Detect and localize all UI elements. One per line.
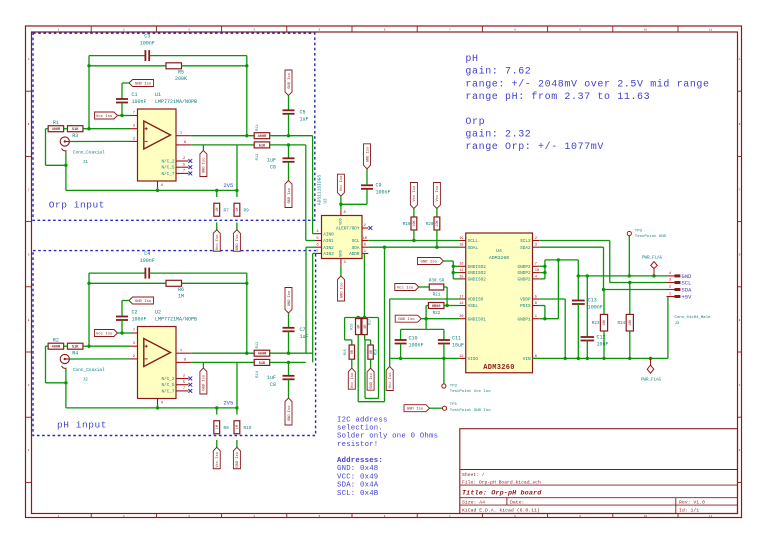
svg-text:GND Iso: GND Iso: [288, 406, 292, 422]
coaxial connector J2: [60, 354, 69, 368]
wire R23 top lead: [603, 290, 605, 315]
svg-text:SDA: SDA: [352, 246, 360, 251]
no-connect X N/C_5 (U1): [188, 165, 192, 169]
svg-text:SDA: SDA: [682, 288, 693, 294]
svg-text:1M: 1M: [216, 208, 220, 212]
no-connect X N/C_2 (U1): [188, 159, 192, 163]
svg-text:VSEL: VSEL: [468, 304, 479, 309]
wire R7 top lead: [216, 190, 218, 197]
wire VDDISO row: [390, 298, 459, 300]
svg-text:Addresses:: Addresses:: [337, 457, 383, 465]
svg-text:R16: R16: [351, 324, 355, 330]
svg-text:2: 2: [183, 375, 185, 379]
wire R24 bottom lead: [629, 331, 631, 358]
svg-text:GND Iso: GND Iso: [236, 452, 240, 468]
svg-text:R7: R7: [224, 209, 230, 214]
svg-text:gain: 7.62: gain: 7.62: [465, 66, 531, 78]
wire GND Iso to C2 horiz (U2): [122, 300, 129, 302]
svg-text:range pH: from 2.37 to 11.63: range pH: from 2.37 to 11.63: [465, 91, 650, 103]
svg-text:AIN2: AIN2: [323, 246, 334, 251]
wire R23 bottom lead: [603, 331, 605, 358]
wire TP2 stem: [443, 358, 445, 383]
wire SCL bus row: [368, 240, 459, 242]
pin N/C_7 stub U2: [176, 390, 189, 392]
svg-text:Vcc Iso: Vcc Iso: [351, 373, 355, 389]
title block divider rev: [675, 498, 677, 514]
junction SDA R20: [435, 246, 438, 249]
resistor R13 (guard series): [254, 142, 270, 148]
svg-text:ADM3260: ADM3260: [489, 255, 509, 261]
junction Vcc/C1: [120, 114, 123, 117]
wire C5 bottom lead: [288, 114, 290, 136]
svg-text:N/C_2: N/C_2: [161, 160, 174, 165]
wire feedback row1 right (U2): [149, 272, 247, 274]
wire feedback row1 right (U1): [149, 55, 247, 57]
svg-text:C1: C1: [132, 92, 138, 98]
svg-text:U2: U2: [155, 310, 161, 316]
wire address outer U bottom: [358, 401, 384, 403]
capacitor C7: [283, 328, 295, 332]
capacitor C11: [438, 340, 450, 344]
wire SCL2 down: [609, 241, 611, 283]
pin ALERT/RDY U3: [362, 227, 368, 229]
global label GND Iso below guard pin (U2): [200, 368, 207, 394]
wire R15 top lead: [351, 340, 353, 345]
svg-text:GND Iso: GND Iso: [370, 373, 374, 389]
svg-text:PWR_FLAG: PWR_FLAG: [642, 256, 663, 260]
pin +IN U1: [130, 128, 138, 130]
pin AIN1 U3: [315, 240, 322, 242]
svg-text:Date:: Date:: [510, 500, 524, 506]
pin GNDISO2(15) U4: [459, 278, 466, 280]
wire R7 bottom lead: [216, 223, 218, 230]
pin PDIS(8) U4: [533, 305, 540, 307]
global label GND Iso below U3 GND: [338, 276, 345, 301]
junction rail R9: [235, 189, 238, 192]
pin VDDP(5) U4: [533, 298, 540, 300]
pin J3 GND body: [675, 274, 681, 277]
IC U3 ADS1115 body: [322, 216, 363, 259]
svg-text:11: 11: [459, 269, 464, 273]
svg-text:GNDISO2: GNDISO2: [468, 265, 487, 270]
wire feedback row2 right (U2): [182, 282, 247, 284]
wire GNDISO2 flag lead: [444, 260, 454, 262]
wire GNDP2 pin10: [539, 272, 545, 274]
junction GND PDIS branch: [557, 258, 560, 261]
global label GND Iso below R18: [367, 368, 374, 390]
svg-text:R13: R13: [256, 153, 260, 161]
capacitor C5: [283, 110, 295, 114]
wire VDD stem: [340, 196, 342, 209]
pin N/C_2 stub U2: [176, 378, 189, 380]
svg-text:3: 3: [133, 342, 135, 346]
pin -IN U2: [130, 358, 138, 360]
svg-text:C2: C2: [132, 310, 138, 316]
svg-text:Vcc Iso: Vcc Iso: [397, 287, 414, 291]
pin N/C_2 stub U1: [176, 160, 189, 162]
svg-text:18: 18: [459, 244, 463, 248]
wire PDIS down: [544, 306, 546, 319]
svg-text:J1: J1: [83, 160, 89, 165]
resistor R19: [411, 217, 417, 230]
svg-text:2: 2: [133, 355, 135, 359]
svg-text:Vcc Iso: Vcc Iso: [96, 115, 113, 119]
wire R19 bottom lead: [413, 230, 415, 241]
wire R8 top lead: [216, 408, 218, 415]
junction Vcc/C2: [120, 331, 123, 334]
svg-text:SDA2: SDA2: [520, 246, 531, 251]
svg-text:U3: U3: [325, 198, 329, 204]
svg-text:8: 8: [184, 141, 186, 145]
junction VIN PWR_FLAG: [649, 357, 652, 360]
svg-text:R4: R4: [72, 351, 78, 357]
junction row2 left (U2): [87, 282, 90, 285]
IC U4 ADM3260 body: [466, 233, 533, 373]
wire SDA row to J3: [604, 289, 667, 291]
wire GND Iso to C1 horiz (U1): [122, 82, 129, 84]
junction GNDP1 PDIS: [543, 317, 546, 320]
title block line file/title: [460, 484, 738, 486]
capacitor C13: [572, 301, 585, 305]
wire GNDP2 pin4: [539, 278, 545, 280]
svg-text:GND Iso: GND Iso: [135, 83, 152, 87]
Orp input dashed box: [33, 33, 315, 220]
wire feedback vertical right (U2): [246, 273, 248, 353]
wire jog to R18: [365, 339, 371, 341]
svg-text:7: 7: [133, 112, 135, 116]
svg-text:2: 2: [535, 237, 537, 241]
svg-text:5: 5: [535, 295, 537, 299]
svg-text:I2C address: I2C address: [337, 416, 388, 424]
wire R19 top lead: [413, 209, 415, 218]
resistor R8: [214, 421, 220, 434]
wire R22-left down: [425, 306, 427, 330]
pin SCL U3: [362, 240, 368, 242]
svg-text:Orp: Orp: [465, 117, 485, 128]
svg-text:3: 3: [669, 279, 671, 283]
svg-text:ADS1115IDGS: ADS1115IDGS: [316, 175, 322, 206]
svg-text:C7: C7: [300, 327, 306, 333]
resistor R6 (feedback): [166, 280, 182, 286]
wire TP3 stem: [628, 236, 630, 276]
wire GNDISO2 pin15: [453, 278, 459, 280]
junction rail C11/TP2: [442, 357, 445, 360]
no-connect X N/C_7 (U1): [188, 172, 192, 176]
svg-text:51K: 51K: [72, 346, 79, 350]
svg-text:LMP7721MA/NOPB: LMP7721MA/NOPB: [155, 99, 197, 105]
svg-text:1M: 1M: [216, 425, 220, 429]
no-connect X N/C_5 (U2): [188, 383, 192, 387]
capacitor C4 (feedback): [145, 268, 149, 279]
wire guard row (U1): [191, 144, 254, 146]
junction GNDISO2 11: [452, 271, 455, 274]
svg-text:GND: GND: [340, 249, 344, 256]
svg-text:Solder only one 0 Ohms: Solder only one 0 Ohms: [337, 433, 438, 441]
global label Vcc Iso at R21: [395, 284, 419, 291]
wire coax to -IN (U1): [69, 140, 130, 142]
junction rail R16: [357, 316, 360, 319]
wire rail right drop: [378, 318, 380, 399]
pin GND U3: [340, 259, 342, 265]
resistor R11 (output series): [254, 133, 270, 139]
svg-text:1uF: 1uF: [300, 117, 309, 123]
svg-text:R12: R12: [256, 341, 260, 349]
wire rail flag stem: [389, 358, 391, 366]
wire feedback row1 left (U1): [89, 55, 145, 57]
svg-text:GND Iso: GND Iso: [203, 158, 207, 174]
svg-text:AIN0: AIN0: [323, 232, 334, 237]
pin GNDISO2(11) U4: [459, 272, 466, 274]
svg-text:R23: R23: [592, 321, 600, 326]
resistor R9: [234, 203, 240, 216]
junction C7 output row: [287, 352, 290, 355]
svg-text:7: 7: [133, 329, 135, 333]
svg-text:GNDP1: GNDP1: [518, 317, 531, 322]
svg-text:2: 2: [364, 224, 366, 228]
wire coax shield vertical (U2): [65, 369, 67, 408]
pin AIN3 U3: [315, 252, 322, 254]
global label Vcc Iso at op-amp (U1): [95, 112, 118, 119]
svg-text:1M: 1M: [236, 425, 240, 429]
wire R18 top lead: [370, 340, 372, 345]
pin GNDP2(7) U4: [533, 265, 540, 267]
svg-text:R22: R22: [433, 311, 441, 316]
pin +IN U2: [130, 345, 138, 347]
junction feedback row2 (U2): [245, 282, 248, 285]
wire C6 top lead: [288, 145, 290, 158]
no-connect X N/C_2 (U2): [188, 377, 192, 381]
svg-text:GND Iso: GND Iso: [398, 318, 415, 322]
wire address inner U bottom: [365, 397, 379, 399]
pin OUT U2: [176, 352, 191, 354]
svg-text:10: 10: [363, 237, 367, 241]
global label GND Iso below C8: [285, 398, 292, 425]
svg-text:C13: C13: [588, 298, 597, 304]
svg-text:J2: J2: [83, 378, 89, 383]
svg-text:gain: 2.32: gain: 2.32: [465, 129, 531, 141]
pin J3 +5V body: [675, 295, 681, 298]
junction VIN C12: [586, 357, 589, 360]
junction V- rail (U2): [156, 406, 159, 409]
svg-text:N/C_5: N/C_5: [161, 383, 174, 388]
wire GNDISO2 pin11: [453, 272, 459, 274]
wire C13 bottom lead: [577, 304, 579, 358]
wire feedback row2 right (U1): [182, 65, 247, 67]
wire left loop horizontal (U2): [46, 382, 66, 384]
wire Orp guard to AIN1 vertical: [305, 145, 307, 241]
resistor R1 (input): [48, 126, 64, 132]
wire C6 bottom lead: [288, 162, 290, 181]
svg-text:Vcc Iso: Vcc Iso: [96, 333, 113, 337]
junction GNDISO2 16: [452, 265, 455, 268]
coaxial connector J1: [60, 137, 69, 151]
svg-text:pH input: pH input: [57, 420, 107, 431]
svg-text:11: 11: [709, 29, 713, 32]
svg-text:Vcc Iso: Vcc Iso: [216, 452, 220, 468]
svg-text:C3: C3: [144, 33, 150, 39]
wire AIN0 horizontal: [313, 233, 315, 235]
op-amp U2 plus mark: [145, 345, 148, 348]
wire SCL row to J3: [610, 282, 667, 284]
wire C9 bottom horizontal: [341, 203, 367, 205]
wire guard-row down to rail (U1): [236, 145, 238, 191]
svg-text:N/C_7: N/C_7: [161, 389, 174, 394]
svg-text:R14: R14: [256, 370, 260, 378]
wire R17 bottom jog down: [364, 335, 366, 340]
svg-text:100nF: 100nF: [376, 190, 391, 196]
svg-text:8: 8: [344, 211, 346, 215]
svg-text:SCLL: SCLL: [468, 239, 479, 244]
junction shield loop (U1): [64, 164, 67, 167]
resistor R18: [368, 345, 374, 359]
pin N/C_7 stub U1: [176, 172, 189, 174]
svg-text:7: 7: [183, 170, 185, 174]
wire 2V5 rail (U2): [66, 407, 237, 409]
pin V+ U1: [131, 115, 138, 117]
svg-text:400R: 400R: [52, 128, 61, 132]
svg-text:VCC: 0x49: VCC: 0x49: [337, 473, 378, 481]
svg-text:3: 3: [344, 261, 346, 265]
svg-text:C4: C4: [144, 251, 150, 257]
title block line size/kicad: [460, 504, 738, 506]
junction GNDP2 10: [543, 271, 546, 274]
junction GNDP2 7: [543, 265, 546, 268]
capacitor C9: [361, 185, 373, 189]
svg-text:resistor!: resistor!: [337, 441, 378, 449]
pin VISO(12) U4: [459, 357, 466, 359]
no-connect X N/C_7 (U2): [188, 389, 192, 393]
svg-text:R30.5R: R30.5R: [429, 279, 445, 284]
pin J3 GND stub: [667, 275, 675, 277]
svg-text:GND Iso: GND Iso: [407, 408, 424, 412]
wire GNDP2 pin7: [539, 265, 545, 267]
wire cap top rail: [401, 328, 444, 330]
svg-text:400R: 400R: [258, 135, 267, 139]
svg-text:Sheet: /: Sheet: /: [462, 472, 485, 478]
svg-text:10K: 10K: [436, 219, 440, 226]
testpoint TP2: [442, 384, 446, 388]
svg-text:selection.: selection.: [337, 425, 383, 433]
svg-text:2: 2: [669, 286, 671, 290]
title block line comment/sheet: [460, 469, 738, 471]
resistor R17: [362, 319, 368, 335]
wire GNDP2 vertical: [544, 260, 546, 279]
svg-text:100nF: 100nF: [132, 99, 147, 105]
PWR_FLAG (GND) symbol: [651, 262, 658, 276]
svg-text:5: 5: [183, 163, 185, 167]
pin J3 SDA stub: [667, 289, 675, 291]
svg-text:7: 7: [535, 263, 537, 267]
wire C8 bottom lead: [288, 379, 290, 398]
pin N/C_5 stub U1: [176, 166, 189, 168]
junction VIN R23: [602, 357, 605, 360]
testpoint TP3: [627, 231, 631, 235]
junction +IN row (U1): [87, 127, 90, 130]
svg-text:GNDP2: GNDP2: [518, 265, 531, 270]
wire R15 bottom lead: [351, 359, 353, 368]
global label GND Iso above C9: [364, 144, 371, 169]
svg-text:100nF: 100nF: [140, 41, 155, 47]
wire SDA2 out: [539, 246, 603, 248]
svg-text:Rev: V1.0: Rev: V1.0: [679, 500, 705, 506]
svg-text:VISO: VISO: [468, 357, 479, 362]
junction VDD C9: [339, 203, 342, 206]
svg-text:10K: 10K: [413, 219, 417, 226]
svg-text:KiCad E.D.A. kicad (6.0.11): KiCad E.D.A. kicad (6.0.11): [462, 507, 540, 513]
svg-text:10K: 10K: [603, 319, 607, 326]
wire VIN rail: [533, 357, 668, 359]
capacitor C12: [581, 337, 595, 341]
pin OUT U1: [176, 135, 191, 137]
global label GND Iso at GNDISO2: [418, 258, 444, 265]
wire AIN3 horizontal: [313, 252, 315, 254]
wire R14 right (U2): [270, 361, 306, 363]
svg-text:GND Iso: GND Iso: [135, 300, 152, 304]
wire C1 to Vcc row (U1): [121, 103, 123, 116]
svg-text:GND Iso: GND Iso: [421, 261, 438, 265]
wire Vcc Iso to R21: [419, 286, 429, 288]
wire feedback row2 left (U2): [89, 282, 166, 284]
wire GND Iso to C2 vert (U2): [121, 301, 123, 317]
junction VIN C13: [577, 357, 580, 360]
svg-text:3: 3: [535, 244, 537, 248]
svg-text:1uF: 1uF: [300, 334, 309, 340]
pin SDAL(18) U4: [459, 246, 466, 248]
wire SDA bus row: [368, 246, 459, 248]
pin guard U1: [176, 144, 191, 146]
pin AIN2 U3: [315, 246, 322, 248]
wire feedback row1 left (U2): [89, 272, 145, 274]
wire GND row to J3: [578, 275, 666, 277]
junction GND row C13: [577, 274, 580, 277]
wire TP1 lead: [430, 407, 443, 409]
wire guard row (U2): [191, 361, 254, 363]
svg-text:R20: R20: [426, 222, 434, 227]
svg-text:GND Iso: GND Iso: [288, 73, 292, 89]
capacitor C1 (input supply): [116, 99, 128, 103]
svg-text:LMP7721MA/NOPB: LMP7721MA/NOPB: [155, 317, 197, 323]
wire R12 right (U2): [270, 352, 313, 354]
wire SCL2 out: [539, 240, 610, 242]
pin V+ U2: [131, 332, 138, 334]
global label Vcc Iso above U3 VDD: [337, 174, 344, 196]
capacitor C6: [283, 158, 295, 162]
wire GNDP1 up: [557, 260, 559, 319]
resistor R4 (input): [67, 343, 83, 349]
wire C10 bottom lead: [400, 344, 402, 359]
wire C10 top lead: [400, 329, 402, 340]
svg-text:0R: 0R: [364, 325, 368, 329]
wire feedback vertical right (U1): [246, 56, 248, 136]
wire R9 top lead: [236, 190, 238, 197]
capacitor C3 (feedback): [145, 50, 149, 61]
wire C7 top lead: [288, 313, 290, 328]
pin SDA U3: [362, 246, 368, 248]
wire R1 left (U1): [46, 128, 49, 130]
svg-text:15: 15: [459, 275, 463, 279]
svg-text:200K: 200K: [175, 76, 187, 82]
svg-text:ADDR: ADDR: [349, 252, 360, 257]
wire coax to -IN (U2): [69, 358, 130, 360]
svg-text:51K: 51K: [72, 128, 79, 132]
title block divider date: [506, 498, 508, 505]
svg-text:GND Iso: GND Iso: [288, 188, 292, 204]
wire Orp out to AIN0 vertical: [312, 136, 314, 234]
pin GNDP2(4) U4: [533, 278, 540, 280]
svg-text:range Orp: +/- 1077mV: range Orp: +/- 1077mV: [465, 141, 604, 153]
junction VIN VDDP: [564, 357, 567, 360]
svg-text:20: 20: [459, 315, 463, 319]
